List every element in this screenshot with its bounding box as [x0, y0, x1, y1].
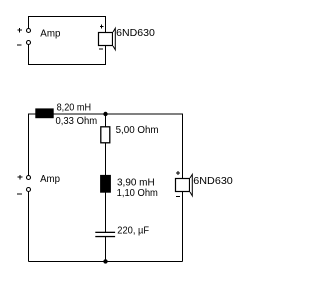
svg-text:6ND630: 6ND630 — [193, 175, 233, 187]
terminal + (top amp) — [17, 28, 30, 33]
terminal - (bottom amp) — [17, 188, 30, 194]
wire from speaker - down right rail to bottom rail — [181, 192, 183, 261]
svg-text:220, µF: 220, µF — [117, 225, 149, 237]
wire bottom rail — [29, 260, 183, 262]
junction node (bottom of middle branch) — [103, 259, 107, 263]
capacitor C1 220 µF bottom plate — [95, 236, 115, 237]
terminal - (top amp) — [17, 41, 31, 46]
svg-text:1,10 Ohm: 1,10 Ohm — [117, 187, 159, 199]
svg-text:8,20 mH: 8,20 mH — [57, 101, 92, 113]
svg-text:Amp: Amp — [40, 27, 60, 39]
capacitor C1 220 µF top plate — [95, 232, 115, 233]
svg-text:5,00 Ohm: 5,00 Ohm — [116, 124, 159, 136]
terminal + (bottom amp) — [18, 175, 31, 180]
wire from + terminal up, across top rail, down to speaker + — [29, 114, 183, 178]
junction node (top of middle branch) — [103, 112, 107, 116]
inductor L1 8,20 mH / 0,33 Ohm — [35, 108, 53, 118]
wire from + terminal up and across top to speaker + — [29, 17, 106, 33]
svg-text:6ND630: 6ND630 — [116, 27, 155, 39]
speaker LS2 6ND630 (bottom) — [176, 171, 193, 196]
inductor L2 3,90 mH / 1,10 Ohm — [100, 175, 111, 193]
svg-text:Amp: Amp — [40, 173, 60, 185]
wire from speaker - down and across bottom to - terminal — [29, 45, 106, 65]
wire middle branch upper (junction to capacitor top plate) — [105, 114, 107, 232]
svg-text:0,33 Ohm: 0,33 Ohm — [56, 115, 98, 127]
speaker LS1 6ND630 (top) — [99, 25, 116, 50]
wire from - terminal down left rail to bottom rail — [28, 192, 30, 262]
wire middle branch lower (capacitor bottom plate to bottom rail) — [105, 237, 107, 262]
resistor R1 5,00 Ohm — [101, 127, 110, 143]
